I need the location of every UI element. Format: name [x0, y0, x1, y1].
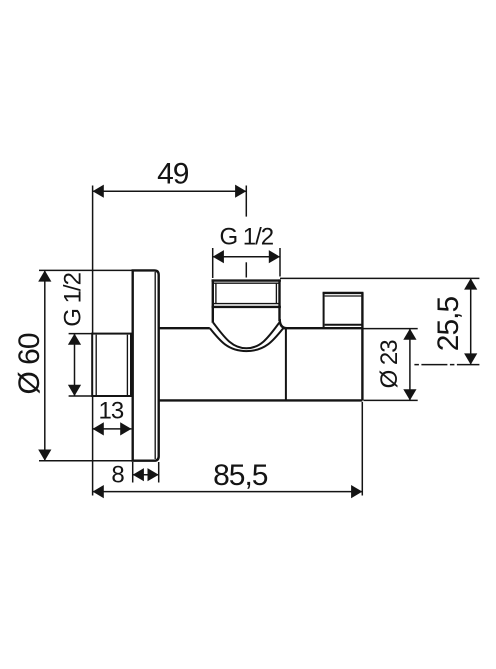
svg-text:Ø 23: Ø 23 — [376, 340, 403, 389]
svg-text:49: 49 — [157, 158, 189, 191]
svg-text:G 1/2: G 1/2 — [219, 223, 273, 250]
svg-text:8: 8 — [111, 462, 124, 489]
svg-text:13: 13 — [99, 398, 124, 425]
svg-text:25,5: 25,5 — [432, 296, 465, 351]
svg-text:G 1/2: G 1/2 — [59, 272, 86, 326]
svg-text:Ø 60: Ø 60 — [13, 333, 46, 394]
svg-text:85,5: 85,5 — [213, 459, 268, 492]
